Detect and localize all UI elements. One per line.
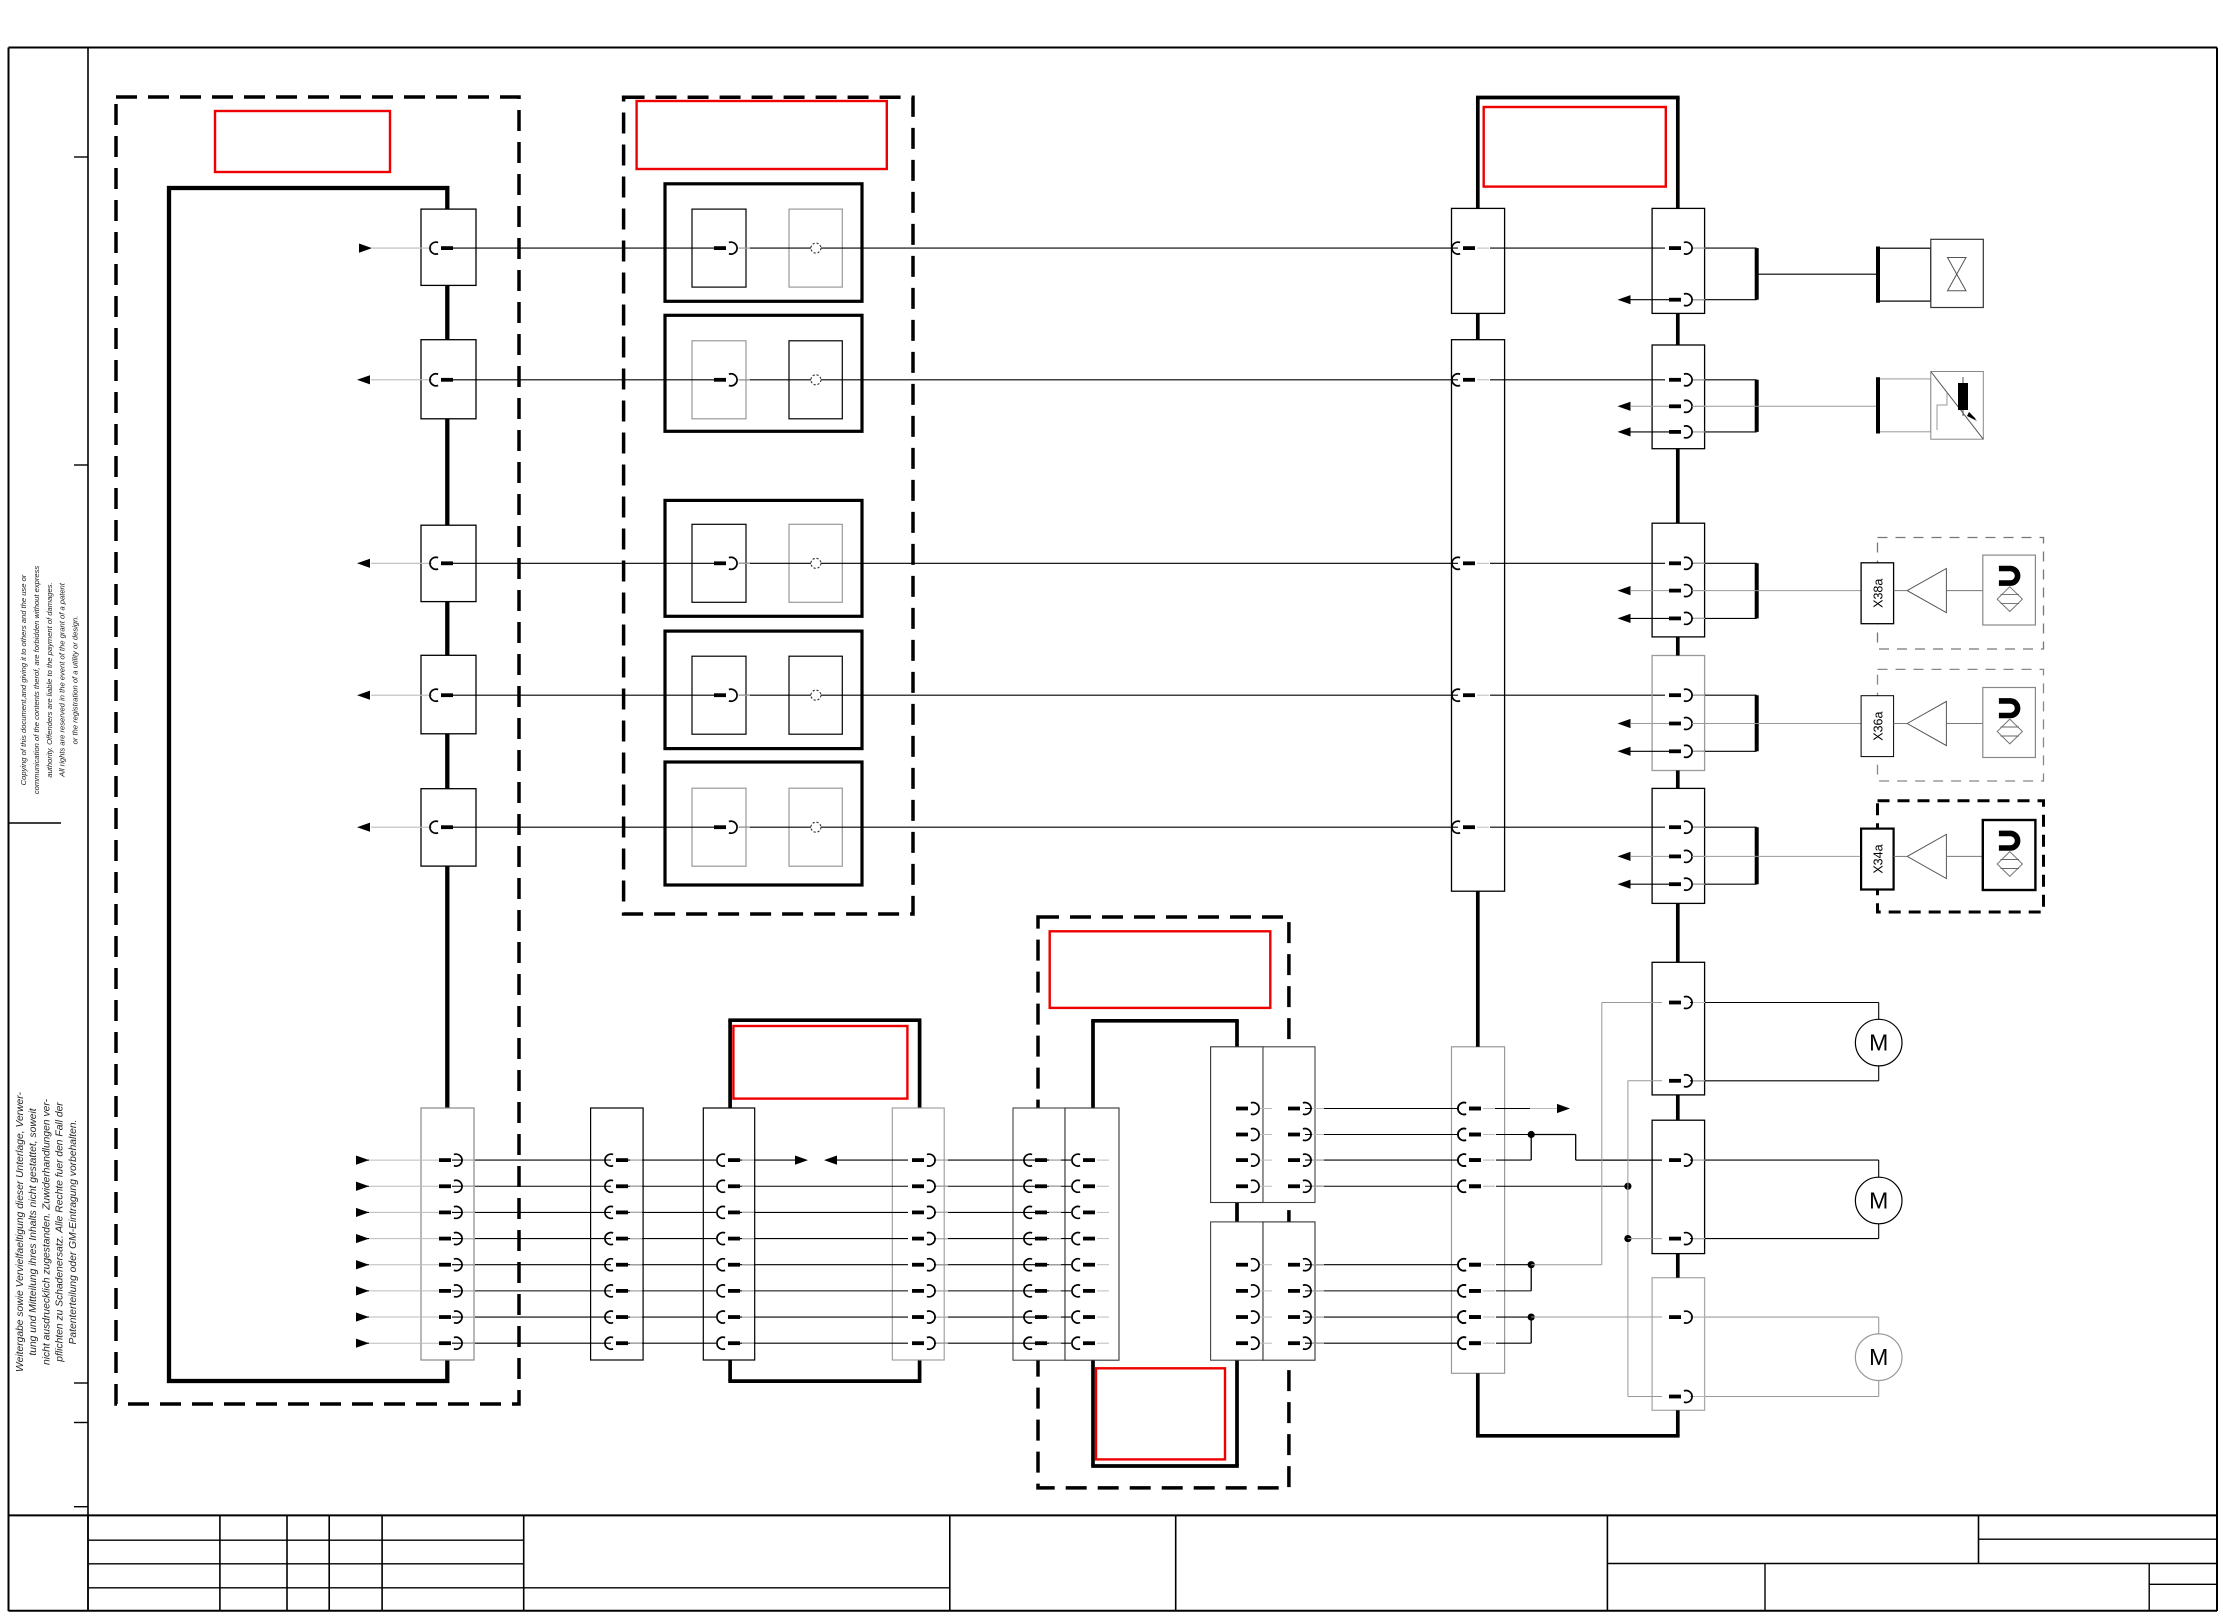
svg-text:or the registration of a utili: or the registration of a utility or desi… <box>71 616 80 745</box>
svg-text:X36a: X36a <box>1872 712 1886 741</box>
svg-text:M: M <box>1869 1188 1888 1214</box>
svg-text:Patenterteilung oder GM-Eintra: Patenterteilung oder GM-Eintragung vorbe… <box>68 1120 79 1345</box>
svg-text:M: M <box>1869 1344 1888 1370</box>
svg-text:X34a: X34a <box>1872 844 1886 873</box>
svg-text:All rights are reserved in the: All rights are reserved in the event of … <box>58 582 67 778</box>
svg-text:tung und Mitteilung ihres Inha: tung und Mitteilung ihres Inhalts nicht … <box>28 1107 39 1355</box>
svg-text:Weitergabe sowie Vervielfaelti: Weitergabe sowie Vervielfaeltigung diese… <box>15 1091 26 1371</box>
svg-text:Copying of this document,and g: Copying of this document,and giving it t… <box>19 574 28 785</box>
svg-text:communication of the contents: communication of the contents therof, ar… <box>32 566 41 795</box>
svg-text:pflichten zu Schadenersatz. Al: pflichten zu Schadenersatz. Alle Rechte … <box>55 1102 66 1363</box>
svg-text:M: M <box>1869 1030 1888 1056</box>
svg-text:X38a: X38a <box>1872 579 1886 608</box>
svg-text:authority. Offenders are liabl: authority. Offenders are liable to the p… <box>45 582 54 777</box>
svg-text:nicht ausdruecklich zugestande: nicht ausdruecklich zugestanden. Zuwider… <box>41 1098 52 1365</box>
